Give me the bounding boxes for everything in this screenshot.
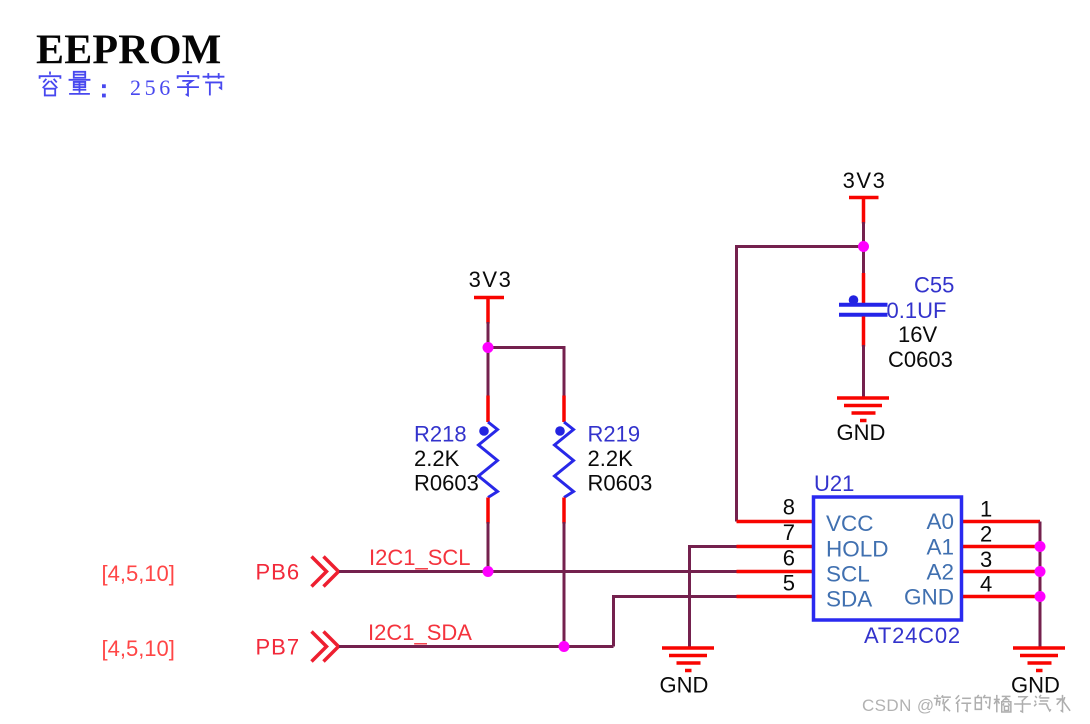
svg-text:GND: GND bbox=[904, 585, 954, 610]
junction dot A2 bbox=[1035, 566, 1046, 577]
svg-text:8: 8 bbox=[783, 495, 795, 520]
IC U21 AT24C02 box bbox=[814, 497, 962, 620]
svg-text:[4,5,10]: [4,5,10] bbox=[102, 561, 175, 586]
svg-text:GND: GND bbox=[837, 420, 886, 445]
junction dot A1 bbox=[1035, 541, 1046, 552]
svg-text:SCL: SCL bbox=[826, 562, 870, 587]
junction dot B bbox=[858, 241, 869, 252]
port PB7 bbox=[102, 632, 339, 662]
svg-text:[4,5,10]: [4,5,10] bbox=[102, 636, 175, 661]
svg-text:R0603: R0603 bbox=[414, 471, 479, 496]
port PB6 bbox=[102, 557, 339, 587]
pin 8 VCC bbox=[737, 520, 814, 524]
wire PB6 to SCL pin bbox=[339, 570, 738, 573]
power 3V3 (above C55) bbox=[843, 168, 887, 224]
svg-text:256: 256 bbox=[130, 75, 174, 100]
svg-text:HOLD: HOLD bbox=[826, 537, 889, 562]
pin 3 A2 bbox=[962, 570, 1040, 574]
svg-text:3V3: 3V3 bbox=[843, 168, 887, 193]
pin 7 HOLD bbox=[737, 545, 814, 549]
svg-text:PB6: PB6 bbox=[256, 560, 301, 585]
svg-text:A0: A0 bbox=[926, 509, 954, 534]
watermark CSDN bbox=[862, 695, 1070, 715]
subtitle 容量：256字节 bbox=[40, 71, 225, 100]
capacitor C55 bbox=[839, 273, 954, 372]
svg-text:7: 7 bbox=[783, 520, 795, 545]
wire junction A to R218 top bbox=[487, 348, 490, 398]
ground GND (HOLD) bbox=[660, 648, 714, 698]
svg-text:AT24C02: AT24C02 bbox=[864, 623, 961, 648]
resistor R219 bbox=[555, 396, 653, 524]
svg-text:16V: 16V bbox=[898, 322, 937, 347]
svg-text:EEPROM: EEPROM bbox=[36, 28, 222, 74]
resistor R218 bbox=[414, 396, 498, 524]
junction dot SCL/R218 bbox=[483, 566, 494, 577]
svg-text:U21: U21 bbox=[814, 471, 854, 496]
svg-text:SDA: SDA bbox=[826, 587, 872, 612]
svg-text:CSDN @: CSDN @ bbox=[862, 696, 935, 715]
wire junction A to R219 top bbox=[488, 348, 564, 398]
svg-text:A1: A1 bbox=[926, 535, 954, 560]
pin 1 A0 bbox=[962, 520, 1040, 524]
pin 2 A1 bbox=[962, 545, 1040, 549]
svg-text:0.1UF: 0.1UF bbox=[887, 298, 947, 323]
ground GND (below C55) bbox=[837, 398, 889, 445]
wire PB7 horizontal bbox=[339, 645, 614, 648]
pin 4 GND bbox=[962, 595, 1040, 599]
pin 5 SDA bbox=[737, 595, 814, 599]
wire SDA riser to pin 5 bbox=[614, 597, 739, 647]
svg-text:3: 3 bbox=[980, 547, 992, 572]
svg-text:I2C1_SDA: I2C1_SDA bbox=[368, 620, 472, 645]
svg-text:I2C1_SCL: I2C1_SCL bbox=[369, 545, 471, 570]
svg-text:2: 2 bbox=[980, 522, 992, 547]
svg-text:C55: C55 bbox=[914, 273, 954, 298]
power 3V3 (above resistors) bbox=[469, 267, 513, 324]
svg-text:VCC: VCC bbox=[826, 511, 874, 536]
wire HOLD to ground bbox=[690, 547, 739, 649]
wire junction B to VCC pin bbox=[737, 247, 864, 522]
wire 3V3 to junction B bbox=[862, 222, 865, 277]
ground GND (right) bbox=[1011, 648, 1065, 698]
svg-text:1: 1 bbox=[980, 497, 992, 522]
svg-text:GND: GND bbox=[660, 673, 709, 698]
svg-text:6: 6 bbox=[783, 546, 795, 571]
svg-text:4: 4 bbox=[980, 572, 992, 597]
svg-text:3V3: 3V3 bbox=[469, 267, 513, 292]
svg-text:PB7: PB7 bbox=[256, 635, 301, 660]
junction dot SDA/R219 bbox=[559, 641, 570, 652]
svg-text:2.2K: 2.2K bbox=[414, 446, 460, 471]
svg-text:GND: GND bbox=[1011, 673, 1060, 698]
junction dot A bbox=[483, 342, 494, 353]
pin 6 SCL bbox=[737, 570, 814, 574]
svg-text:R219: R219 bbox=[588, 422, 641, 447]
svg-text:A2: A2 bbox=[926, 560, 954, 585]
wire C55 to ground bbox=[862, 345, 865, 398]
svg-text:C0603: C0603 bbox=[888, 347, 953, 372]
svg-text:R218: R218 bbox=[414, 422, 467, 447]
junction dot pin4 GND bbox=[1035, 591, 1046, 602]
wire A0-A2/GND bus to ground bbox=[1039, 522, 1042, 649]
svg-text:2.2K: 2.2K bbox=[588, 446, 634, 471]
svg-text:R0603: R0603 bbox=[588, 471, 653, 496]
wire R219 to SDA net bbox=[563, 522, 566, 647]
svg-text:5: 5 bbox=[783, 571, 795, 596]
wire R218 to SCL net bbox=[487, 522, 490, 572]
wire 3V3 to junction A bbox=[487, 322, 490, 349]
